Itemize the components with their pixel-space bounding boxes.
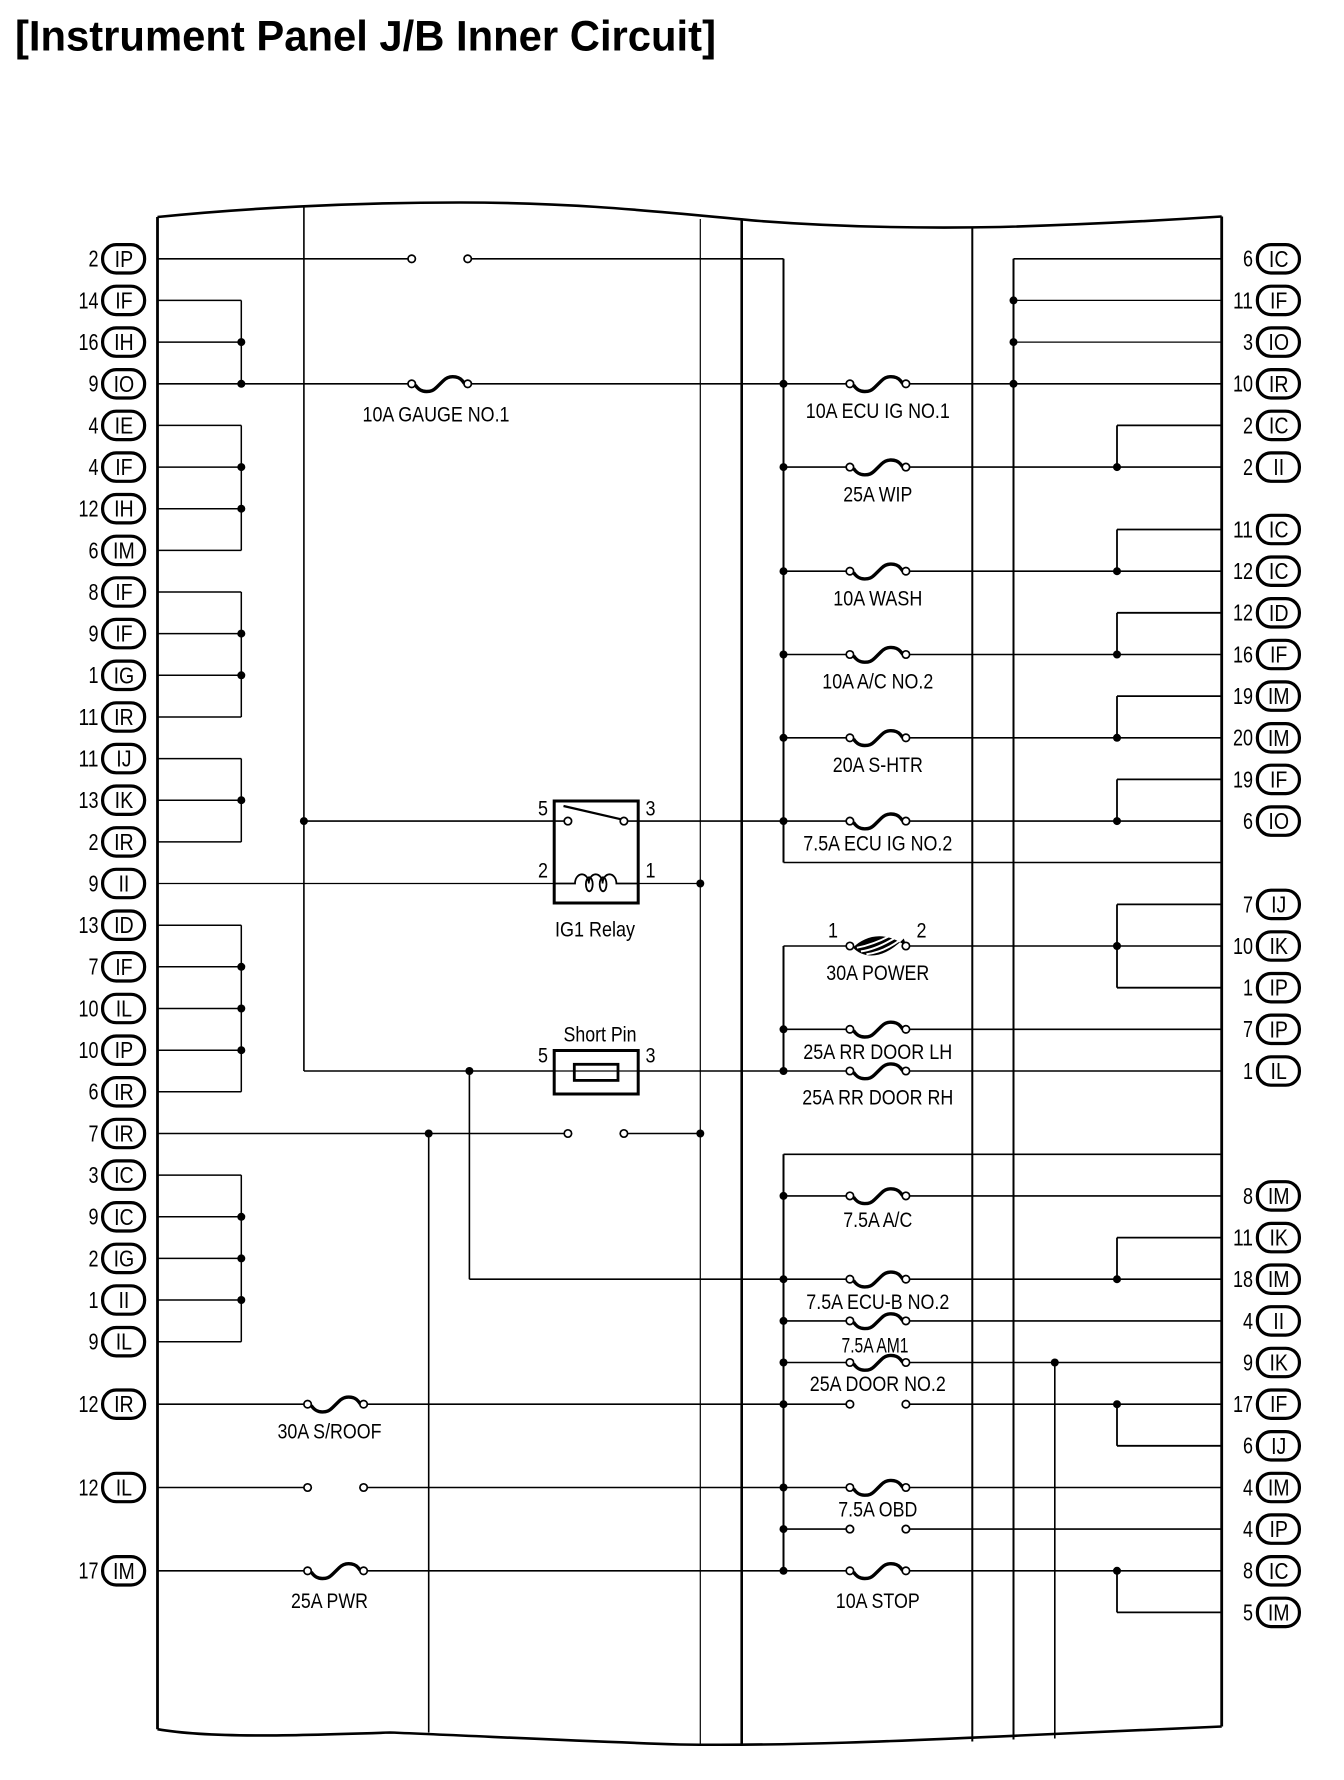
svg-text:IC: IC [1269, 517, 1289, 543]
component Short Pin (body) [554, 1023, 638, 1094]
relay IG1 Relay (body) [554, 801, 638, 941]
node 1 II (left pin) [89, 1286, 145, 1314]
fuse 30A S/ROOF [278, 1397, 382, 1443]
node 17 IM (left pin) [79, 1557, 145, 1585]
svg-text:IR: IR [114, 1391, 134, 1417]
svg-text:IG: IG [114, 662, 135, 688]
svg-text:1: 1 [646, 860, 656, 883]
svg-text:19: 19 [1233, 766, 1253, 792]
svg-text:IO: IO [114, 371, 135, 397]
wire 9 IO row to fuse [158, 383, 784, 385]
wire bus bar 14IF-16IH-9IO [158, 300, 246, 387]
svg-text:1: 1 [1243, 1058, 1253, 1084]
svg-text:13: 13 [79, 787, 99, 813]
wire fuse bank 2 feed bus x783 [780, 1154, 1222, 1575]
svg-text:6: 6 [1243, 246, 1253, 272]
svg-text:3: 3 [646, 1045, 656, 1068]
svg-text:10: 10 [1233, 933, 1253, 959]
svg-text:1: 1 [1243, 975, 1253, 1001]
node 6 IJ (right pin) [1243, 1432, 1299, 1460]
svg-text:9: 9 [1243, 1349, 1253, 1375]
svg-text:11: 11 [1233, 1225, 1253, 1251]
wire bracket 11IC-12IC [1113, 530, 1222, 576]
fuse 10A GAUGE NO.1 [363, 377, 510, 427]
svg-text:IE: IE [115, 412, 134, 438]
wire bracket 19IM-20IM [1113, 696, 1222, 742]
node 3 IO (right pin) [1243, 328, 1299, 356]
wire 7.5A ECU IG NO.2 row [909, 820, 1221, 822]
svg-text:IF: IF [1270, 287, 1287, 313]
svg-text:5: 5 [1243, 1599, 1253, 1625]
wire spare contact row 27.5 row [784, 1403, 1222, 1405]
fuse 7.5A OBD [838, 1480, 917, 1521]
svg-text:16: 16 [79, 329, 99, 355]
J/B outline bottom torn edge [158, 1727, 1222, 1745]
wire 7.5A ECU-B NO.2 row [784, 1278, 1222, 1280]
node 11 IC (right pin) [1233, 515, 1299, 543]
svg-text:10A A/C NO.2: 10A A/C NO.2 [822, 671, 933, 694]
wire ECU IG NO.1 output bus x1013 [1010, 259, 1222, 388]
fuse 7.5A AM1 [842, 1314, 910, 1358]
node 16 IH (left pin) [79, 328, 145, 356]
svg-text:11: 11 [1233, 287, 1253, 313]
svg-text:3: 3 [646, 798, 656, 821]
svg-text:18: 18 [1233, 1266, 1253, 1292]
node 19 IM (right pin) [1233, 682, 1299, 710]
node 4 IP (right pin) [1243, 1515, 1299, 1543]
node 11 IJ (left pin) [79, 744, 145, 772]
svg-text:IJ: IJ [1271, 1433, 1286, 1459]
node 12 ID (right pin) [1233, 599, 1299, 627]
svg-text:30A POWER: 30A POWER [826, 962, 929, 985]
wire 7.5A A/C row [784, 1195, 1222, 1197]
svg-text:IF: IF [115, 621, 132, 647]
node 13 IK (left pin) [79, 786, 145, 814]
svg-text:25A DOOR NO.2: 25A DOOR NO.2 [810, 1373, 946, 1396]
wire 2 IP feed row [158, 258, 784, 260]
node 6 IC (right pin) [1243, 245, 1299, 273]
wire 25A PWR row left [158, 1570, 784, 1572]
svg-text:4: 4 [89, 454, 99, 480]
node 16 IF (right pin) [1233, 640, 1299, 668]
svg-text:IK: IK [1269, 1350, 1288, 1376]
svg-text:IR: IR [1269, 371, 1289, 397]
svg-text:4: 4 [89, 412, 99, 438]
svg-text:[Instrument Panel J/B Inner Ci: [Instrument Panel J/B Inner Circuit] [15, 13, 716, 61]
svg-text:17: 17 [79, 1558, 99, 1584]
wire Short Pin pin 3 to RR DOOR RH fuse [638, 1067, 846, 1075]
svg-text:IF: IF [1270, 1391, 1287, 1417]
svg-text:IC: IC [114, 1204, 134, 1230]
node 19 IF (right pin) [1233, 765, 1299, 793]
open contact on 12 IL row [304, 1484, 367, 1491]
svg-text:5: 5 [538, 798, 548, 821]
wire fuse bank 1 feed bus x783 [780, 259, 1222, 863]
node 3 IC (left pin) [89, 1161, 145, 1189]
short pin shorting bar element [554, 1064, 638, 1080]
svg-text:12: 12 [1233, 600, 1253, 626]
wire 25A RR DOOR RH row [909, 1070, 1221, 1072]
wire 25A RR DOOR LH row [784, 1028, 1222, 1030]
wire 12 IL spare row row left [158, 1487, 784, 1489]
svg-text:IM: IM [1268, 1183, 1290, 1209]
wire bus bar 11IJ-13IK-2IR [158, 759, 246, 842]
svg-text:2: 2 [1243, 412, 1253, 438]
node 7 IR (left pin) [89, 1119, 145, 1147]
svg-text:1: 1 [828, 920, 838, 943]
svg-text:20A S-HTR: 20A S-HTR [833, 754, 923, 777]
svg-text:6: 6 [1243, 1433, 1253, 1459]
svg-text:IK: IK [1269, 933, 1288, 959]
svg-text:IR: IR [114, 1079, 134, 1105]
wire bracket 19IF-6IO [1113, 779, 1222, 825]
svg-text:3: 3 [89, 1162, 99, 1188]
svg-text:13: 13 [79, 912, 99, 938]
wire 25A DOOR NO.2 row [784, 1362, 1222, 1364]
wire bracket 11IK-18IM [1113, 1238, 1222, 1284]
svg-text:IG: IG [114, 1245, 135, 1271]
svg-text:30A S/ROOF: 30A S/ROOF [278, 1421, 382, 1444]
svg-text:2: 2 [1243, 454, 1253, 480]
svg-text:IO: IO [1268, 808, 1289, 834]
svg-text:6: 6 [89, 537, 99, 563]
svg-text:8: 8 [1243, 1183, 1253, 1209]
node 1 IL (right pin) [1243, 1057, 1299, 1085]
svg-text:4: 4 [1243, 1474, 1253, 1500]
node 7 IF (left pin) [89, 953, 145, 981]
svg-text:2: 2 [538, 860, 548, 883]
svg-text:9: 9 [89, 371, 99, 397]
fuse 10A STOP [836, 1564, 920, 1613]
wire POWER feed bus x783 (to RR DOOR fuses) [780, 946, 788, 1071]
fuse 7.5A A/C [843, 1189, 912, 1232]
svg-text:IF: IF [115, 454, 132, 480]
svg-text:IL: IL [116, 996, 132, 1022]
wire bracket 7IJ-10IK-1IP [1113, 904, 1222, 987]
node 2 IG (left pin) [89, 1244, 145, 1272]
svg-text:19: 19 [1233, 683, 1253, 709]
svg-text:IH: IH [114, 329, 134, 355]
svg-text:IR: IR [114, 1121, 134, 1147]
node 13 ID (left pin) [79, 911, 145, 939]
node 7 IP (right pin) [1243, 1015, 1299, 1043]
svg-text:11: 11 [79, 704, 99, 730]
fuse 10A ECU IG NO.1 [806, 377, 950, 423]
svg-text:2: 2 [89, 246, 99, 272]
wire bracket 17IF-6IJ [1113, 1400, 1222, 1446]
svg-text:2: 2 [89, 1245, 99, 1271]
wire bus bar 4IE-4IF-12IH-6IM [158, 425, 246, 550]
node 1 IP (right pin) [1243, 974, 1299, 1002]
node 2 IP (left pin) [89, 245, 145, 273]
svg-text:8: 8 [1243, 1558, 1253, 1584]
svg-text:IF: IF [115, 579, 132, 605]
fuse 25A WIP [843, 460, 912, 506]
J/B outline right edge [1220, 217, 1223, 1727]
wire bracket 2IC-2II [1113, 425, 1222, 471]
svg-text:IP: IP [1269, 1016, 1288, 1042]
wire bus bar 3IC-9IC-2IG-1II-9IL [158, 1175, 246, 1342]
svg-text:IM: IM [113, 537, 135, 563]
svg-text:4: 4 [1243, 1308, 1253, 1334]
svg-text:5: 5 [538, 1045, 548, 1068]
node 9 IK (right pin) [1243, 1348, 1299, 1376]
svg-text:10A WASH: 10A WASH [833, 587, 922, 610]
node 2 IC (right pin) [1243, 411, 1299, 439]
svg-text:IK: IK [1269, 1225, 1288, 1251]
svg-text:12: 12 [79, 1391, 99, 1417]
svg-text:II: II [118, 871, 129, 897]
svg-text:7.5A OBD: 7.5A OBD [838, 1499, 917, 1522]
node 6 IM (left pin) [89, 536, 145, 564]
svg-text:10: 10 [79, 995, 99, 1021]
svg-text:14: 14 [79, 287, 99, 313]
svg-text:25A WIP: 25A WIP [843, 483, 912, 506]
svg-text:20: 20 [1233, 725, 1253, 751]
svg-text:17: 17 [1233, 1391, 1253, 1417]
svg-text:2: 2 [89, 829, 99, 855]
svg-text:ID: ID [1269, 600, 1289, 626]
node 9 IL (left pin) [89, 1328, 145, 1356]
svg-text:IC: IC [1269, 558, 1289, 584]
node 14 IF (left pin) [79, 286, 145, 314]
node 2 II (right pin) [1243, 453, 1299, 481]
wire bracket 8IC-5IM [1113, 1567, 1222, 1613]
wire relay coil pin 1 to x700 bus [638, 880, 704, 888]
wire relay switch row (x304 to 7.5A ECU IG NO.2 fuse) [304, 820, 846, 822]
node 12 IC (right pin) [1233, 557, 1299, 585]
svg-text:IM: IM [1268, 1599, 1290, 1625]
node 6 IR (left pin) [89, 1078, 145, 1106]
fuse 25A PWR [291, 1564, 368, 1613]
fuse 20A S-HTR [833, 731, 923, 777]
svg-text:IM: IM [1268, 1266, 1290, 1292]
svg-text:IM: IM [1268, 1475, 1290, 1501]
svg-text:IL: IL [116, 1475, 132, 1501]
node 2 IR (left pin) [89, 828, 145, 856]
node 18 IM (right pin) [1233, 1265, 1299, 1293]
svg-text:ID: ID [114, 912, 134, 938]
svg-text:25A RR DOOR RH: 25A RR DOOR RH [802, 1086, 953, 1109]
svg-text:IC: IC [1269, 246, 1289, 272]
node 4 IM (right pin) [1243, 1473, 1299, 1501]
svg-text:10: 10 [79, 1037, 99, 1063]
svg-text:7.5A ECU IG NO.2: 7.5A ECU IG NO.2 [803, 833, 952, 856]
svg-text:7: 7 [89, 1120, 99, 1146]
J/B outline left edge [156, 217, 159, 1729]
svg-text:IJ: IJ [116, 746, 131, 772]
svg-text:12: 12 [79, 1474, 99, 1500]
node 4 II (right pin) [1243, 1307, 1299, 1335]
wire vertical bus x304 (top edge to Short Pin row) [300, 207, 554, 1075]
node 10 IR (right pin) [1233, 370, 1299, 398]
wire 7 IR row [158, 1130, 705, 1138]
svg-text:16: 16 [1233, 641, 1253, 667]
node 1 IG (left pin) [89, 661, 145, 689]
node 12 IR (left pin) [79, 1390, 145, 1418]
node 11 IR (left pin) [79, 703, 145, 731]
svg-text:11: 11 [1233, 516, 1253, 542]
wire 30A S/ROOF row left [158, 1403, 784, 1405]
fuse 10A WASH [833, 564, 922, 610]
svg-text:4: 4 [1243, 1516, 1253, 1542]
svg-text:7.5A A/C: 7.5A A/C [843, 1209, 912, 1232]
open contact on 2 IP row [408, 255, 471, 262]
svg-text:Short Pin: Short Pin [564, 1023, 637, 1046]
node 8 IC (right pin) [1243, 1557, 1299, 1585]
svg-text:IM: IM [113, 1558, 135, 1584]
node 9 II (left pin) [89, 869, 145, 897]
svg-text:9: 9 [89, 1329, 99, 1355]
svg-text:10A STOP: 10A STOP [836, 1590, 920, 1613]
svg-text:IR: IR [114, 829, 134, 855]
svg-text:25A RR DOOR LH: 25A RR DOOR LH [803, 1041, 952, 1064]
svg-text:6: 6 [1243, 808, 1253, 834]
wire vertical x469 (Short Pin row down to ECU-B NO.2 row) [469, 1071, 783, 1279]
svg-text:12: 12 [1233, 558, 1253, 584]
svg-text:IR: IR [114, 704, 134, 730]
svg-text:IF: IF [1270, 766, 1287, 792]
wire vertical bus x1013 (6 IC row corner to bottom edge) [1013, 259, 1015, 1740]
svg-text:IM: IM [1268, 683, 1290, 709]
svg-text:9: 9 [89, 621, 99, 647]
wire 25A WIP row [784, 466, 1222, 468]
node 4 IE (left pin) [89, 411, 145, 439]
wire bus bar 13ID-7IF-10IL-10IP-6IR [158, 925, 246, 1092]
svg-text:7.5A ECU-B NO.2: 7.5A ECU-B NO.2 [806, 1291, 949, 1314]
svg-text:8: 8 [89, 579, 99, 605]
node 10 IL (left pin) [79, 994, 145, 1022]
svg-text:10A GAUGE NO.1: 10A GAUGE NO.1 [363, 404, 510, 427]
svg-text:IM: IM [1268, 725, 1290, 751]
wire 10A A/C NO.2 row [784, 654, 1222, 656]
svg-text:6: 6 [89, 1079, 99, 1105]
node 12 IH (left pin) [79, 495, 145, 523]
svg-text:IC: IC [114, 1162, 134, 1188]
svg-text:7: 7 [1243, 891, 1253, 917]
relay IG1 coil pins 2-1 [554, 874, 638, 891]
wire 7.5A AM1 row [784, 1320, 1222, 1322]
wire vertical bus x742 (top edge to bottom edge) [740, 221, 743, 1746]
node 11 IF (right pin) [1233, 286, 1299, 314]
svg-text:7.5A AM1: 7.5A AM1 [842, 1334, 909, 1357]
svg-text:1: 1 [89, 1287, 99, 1313]
wire bus bar 8IF-9IF-1IG-11IR [158, 592, 246, 717]
svg-text:IL: IL [1271, 1058, 1287, 1084]
svg-text:1: 1 [89, 662, 99, 688]
wire 10A WASH row [784, 570, 1222, 572]
svg-text:3: 3 [1243, 329, 1253, 355]
fuse 25A RR DOOR LH [803, 1022, 952, 1064]
svg-text:9: 9 [89, 870, 99, 896]
node 8 IF (left pin) [89, 578, 145, 606]
node 6 IO (right pin) [1243, 807, 1299, 835]
svg-text:7: 7 [1243, 1016, 1253, 1042]
fuse 10A A/C NO.2 [822, 647, 933, 693]
fuse 25A RR DOOR RH [802, 1064, 953, 1110]
wire vertical bus x429 (7 IR row to bottom edge) [425, 1130, 433, 1733]
node 20 IM (right pin) [1233, 724, 1299, 752]
fuse 30A POWER (fusible link) [826, 936, 929, 985]
open contact row [846, 1525, 909, 1532]
svg-text:II: II [1273, 1308, 1284, 1334]
wire spare contact row 30.5 row [784, 1528, 1222, 1530]
svg-text:10: 10 [1233, 371, 1253, 397]
node 4 IF (left pin) [89, 453, 145, 481]
open contact row [846, 1401, 909, 1408]
svg-text:IC: IC [1269, 412, 1289, 438]
svg-text:IO: IO [1268, 329, 1289, 355]
svg-text:IH: IH [114, 496, 134, 522]
wire 20A S-HTR row [784, 737, 1222, 739]
svg-text:11: 11 [79, 746, 99, 772]
node 10 IK (right pin) [1233, 932, 1299, 960]
node 10 IP (left pin) [79, 1036, 145, 1064]
svg-text:2: 2 [917, 920, 927, 943]
node 5 IM (right pin) [1243, 1598, 1299, 1626]
fuse 7.5A ECU-B NO.2 [806, 1272, 949, 1314]
J/B outline top torn edge [158, 203, 1222, 228]
wire 10A STOP row [784, 1570, 1222, 1572]
node 8 IM (right pin) [1243, 1182, 1299, 1210]
wire vertical bus x972 (top edge to bottom edge) [971, 227, 973, 1742]
wire 10A ECU IG NO.1 row [784, 383, 1222, 385]
wire 7.5A OBD row [784, 1487, 1222, 1489]
open contact on 7 IR row [564, 1130, 627, 1137]
node 12 IL (left pin) [79, 1473, 145, 1501]
node 7 IJ (right pin) [1243, 890, 1299, 918]
node 9 IO (left pin) [89, 370, 145, 398]
relay IG1 switch contact pins 5-3 [564, 806, 628, 825]
svg-text:IK: IK [115, 787, 134, 813]
node 17 IF (right pin) [1233, 1390, 1299, 1418]
wire bracket 12ID-16IF [1113, 613, 1222, 659]
wire vertical x1055 (9 IK row to bottom edge) [1051, 1359, 1059, 1739]
wire 9 II row to relay coil pin 2 [158, 883, 555, 885]
svg-text:IC: IC [1269, 1558, 1289, 1584]
wire 30A POWER row [784, 945, 1222, 947]
svg-text:IJ: IJ [1271, 891, 1286, 917]
svg-text:7: 7 [89, 954, 99, 980]
svg-text:25A PWR: 25A PWR [291, 1590, 368, 1613]
svg-text:12: 12 [79, 496, 99, 522]
node 9 IC (left pin) [89, 1203, 145, 1231]
svg-text:IP: IP [115, 246, 134, 272]
svg-text:IP: IP [1269, 975, 1288, 1001]
svg-text:10A ECU IG NO.1: 10A ECU IG NO.1 [806, 400, 950, 423]
svg-text:IF: IF [1270, 642, 1287, 668]
svg-text:II: II [1273, 454, 1284, 480]
fuse 25A DOOR NO.2 [810, 1355, 946, 1396]
wire vertical bus x700 (top edge to bottom edge) [699, 219, 701, 1744]
node 11 IK (right pin) [1233, 1223, 1299, 1251]
svg-text:IF: IF [115, 287, 132, 313]
svg-text:IL: IL [116, 1329, 132, 1355]
svg-text:IP: IP [115, 1037, 134, 1063]
node 9 IF (left pin) [89, 619, 145, 647]
svg-text:IP: IP [1269, 1516, 1288, 1542]
svg-text:IG1 Relay: IG1 Relay [555, 918, 635, 941]
fuse 7.5A ECU IG NO.2 [803, 814, 952, 856]
svg-text:9: 9 [89, 1204, 99, 1230]
svg-text:II: II [118, 1287, 129, 1313]
svg-text:IF: IF [115, 954, 132, 980]
